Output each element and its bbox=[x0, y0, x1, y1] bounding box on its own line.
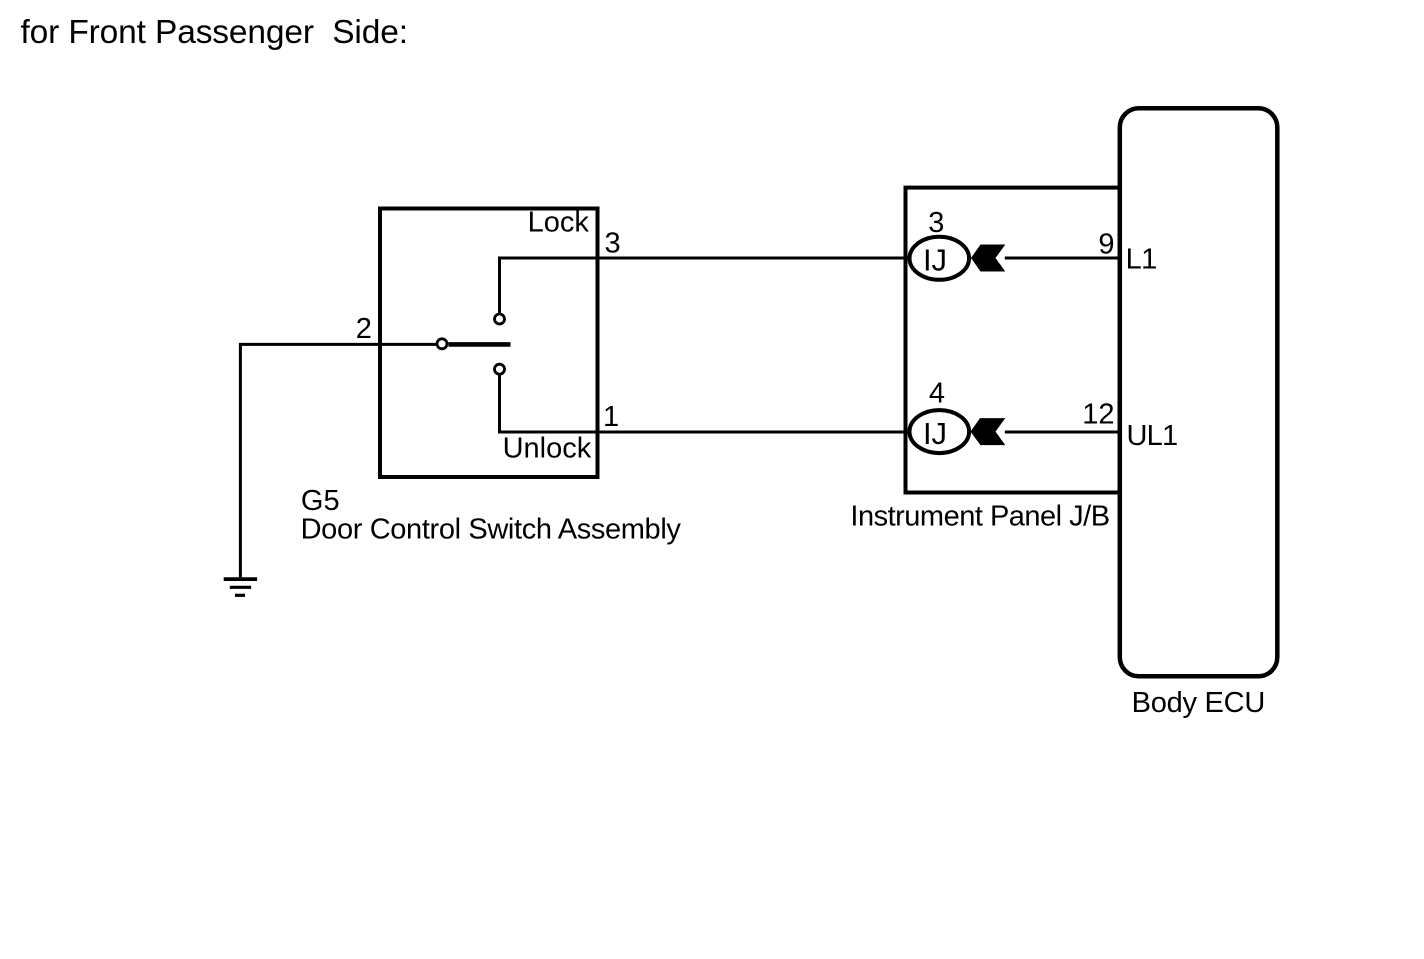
svg-text:G5: G5 bbox=[301, 485, 340, 517]
svg-text:IJ: IJ bbox=[923, 243, 947, 278]
svg-text:12: 12 bbox=[1082, 399, 1114, 431]
svg-text:Door Control Switch Assembly: Door Control Switch Assembly bbox=[301, 514, 682, 546]
svg-text:9: 9 bbox=[1098, 229, 1114, 261]
svg-text:IJ: IJ bbox=[923, 416, 947, 451]
svg-text:3: 3 bbox=[928, 207, 944, 239]
svg-text:Unlock: Unlock bbox=[503, 433, 592, 465]
svg-text:Body ECU: Body ECU bbox=[1132, 687, 1265, 719]
svg-text:L1: L1 bbox=[1126, 244, 1157, 276]
svg-text:UL1: UL1 bbox=[1127, 420, 1178, 452]
svg-text:Instrument Panel J/B: Instrument Panel J/B bbox=[850, 501, 1109, 533]
svg-text:3: 3 bbox=[605, 228, 621, 260]
svg-text:Lock: Lock bbox=[528, 207, 590, 239]
svg-text:1: 1 bbox=[603, 401, 619, 433]
svg-text:for Front Passenger Side:: for Front Passenger Side: bbox=[21, 14, 408, 51]
svg-text:4: 4 bbox=[929, 378, 945, 410]
svg-text:2: 2 bbox=[356, 313, 372, 345]
